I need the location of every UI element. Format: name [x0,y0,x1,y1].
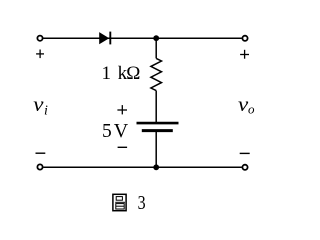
svg-text:v: v [33,94,44,116]
wire between resistor and battery [155,91,157,123]
terminal bottom-right [242,165,247,170]
battery 5V positive plate [137,122,179,125]
node junction dot bottom [153,164,159,170]
node junction dot top [153,35,159,41]
resistor R 1 kOhm zigzag [151,58,162,90]
minus sign above bottom-right terminal [240,152,250,154]
wire branch top segment [155,38,157,58]
diode D1 cathode bar [109,32,111,45]
caption glyph 圖 drawn [113,194,126,210]
svg-text:5V: 5V [102,120,129,142]
wire battery to bottom rail [155,131,157,168]
terminal top-right [242,36,247,41]
plus sign under top-right terminal [240,50,249,59]
wire top rail [43,37,242,39]
svg-text:o: o [248,102,255,117]
wire bottom rail [43,166,242,168]
minus sign above bottom-left terminal [36,152,46,154]
terminal bottom-left [37,164,42,169]
svg-text:i: i [44,104,48,119]
plus sign under top-left terminal [36,50,44,59]
battery plus sign [117,105,127,114]
battery minus sign [118,146,128,148]
terminal top-left [37,36,42,41]
svg-text:1kΩ: 1kΩ [102,63,141,84]
diode D1 triangle [99,32,109,44]
battery 5V negative plate [142,129,173,132]
svg-text:3: 3 [138,192,146,214]
